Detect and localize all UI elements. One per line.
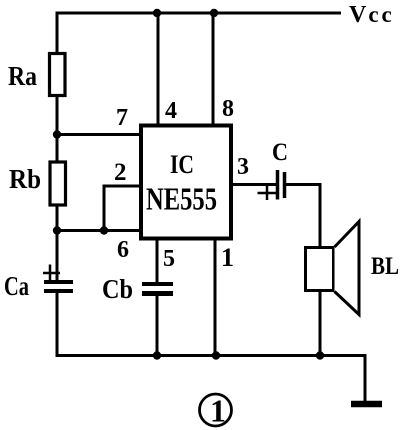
node junction Rb/Ca/pin6 bbox=[53, 226, 61, 234]
svg-text:Cb: Cb bbox=[102, 274, 133, 304]
node junction rail/pin5 bbox=[153, 351, 161, 359]
speaker BL driver bbox=[306, 248, 334, 291]
wire pin 6 bbox=[57, 229, 141, 232]
node junction Ra/Rb/pin7 bbox=[53, 130, 61, 138]
svg-text:Ra: Ra bbox=[8, 61, 37, 91]
svg-text:Rb: Rb bbox=[9, 164, 41, 194]
capacitor C polarized bbox=[258, 170, 285, 200]
wire Rb to junction bbox=[56, 205, 59, 231]
wire junction to Rb bbox=[56, 135, 59, 163]
wire rail corner to ground bbox=[364, 354, 367, 401]
node junction rail/speaker bbox=[316, 351, 324, 359]
resistor Ra bbox=[50, 54, 66, 96]
node junction rail/pin8 bbox=[210, 9, 218, 17]
wire pin 1 bbox=[214, 238, 217, 357]
svg-text:1: 1 bbox=[221, 243, 234, 272]
svg-text:8: 8 bbox=[222, 96, 234, 122]
wire pin 7 bbox=[57, 133, 141, 136]
resistor Rb bbox=[50, 162, 66, 205]
node junction rail/pin1 bbox=[212, 351, 220, 359]
wire C to speaker corner bbox=[286, 183, 320, 248]
IC U1 NE555 box bbox=[141, 126, 231, 239]
wire Ra to junction bbox=[56, 96, 59, 135]
capacitor Ca polarized bbox=[43, 265, 73, 292]
svg-text:NE555: NE555 bbox=[146, 181, 217, 217]
svg-text:3: 3 bbox=[237, 154, 249, 180]
svg-text:6: 6 bbox=[117, 237, 129, 263]
ground symbol bbox=[351, 401, 382, 408]
svg-text:2: 2 bbox=[114, 159, 127, 186]
wire Vcc top rail bbox=[56, 12, 342, 15]
svg-text:IC: IC bbox=[170, 150, 194, 179]
capacitor Cb bbox=[142, 284, 173, 294]
svg-text:BL: BL bbox=[371, 253, 399, 280]
wire Cb to bottom rail bbox=[156, 296, 159, 357]
wire pin 8 bbox=[212, 13, 215, 125]
wire left column rail to Ra bbox=[56, 12, 59, 54]
wire pin 5 upper bbox=[156, 238, 159, 283]
wire speaker to bottom rail bbox=[319, 290, 322, 357]
svg-text:1: 1 bbox=[210, 393, 226, 429]
svg-text:Ca: Ca bbox=[4, 271, 29, 301]
svg-text:7: 7 bbox=[116, 105, 128, 131]
wire pin 2 branch bbox=[104, 186, 141, 231]
svg-text:4: 4 bbox=[165, 98, 177, 124]
svg-text:Vcc: Vcc bbox=[349, 2, 395, 28]
node junction pin2 branch bbox=[100, 226, 108, 234]
figure number circled 1 bbox=[200, 393, 232, 429]
wire Ca to bottom rail bbox=[56, 293, 59, 357]
svg-text:C: C bbox=[272, 139, 288, 166]
svg-text:5: 5 bbox=[163, 246, 175, 272]
wire junction to Ca bbox=[56, 231, 59, 282]
speaker BL horn bbox=[335, 222, 360, 315]
wire pin 4 bbox=[157, 13, 160, 125]
wire bottom ground rail bbox=[56, 354, 366, 357]
node junction rail/pin4 bbox=[153, 9, 161, 17]
wire pin 3 bbox=[231, 183, 276, 186]
